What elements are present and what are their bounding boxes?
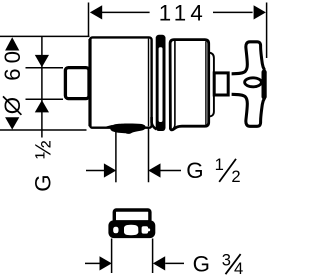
svg-text:2: 2 bbox=[231, 167, 240, 186]
svg-text:114: 114 bbox=[159, 1, 207, 26]
svg-text:1: 1 bbox=[215, 155, 224, 174]
svg-text:3: 3 bbox=[222, 251, 231, 270]
svg-text:G: G bbox=[186, 158, 203, 183]
svg-text:4: 4 bbox=[234, 259, 243, 276]
svg-text:G ½: G ½ bbox=[31, 136, 56, 192]
svg-text:G: G bbox=[193, 252, 210, 276]
svg-text:O 60: O 60 bbox=[0, 46, 25, 114]
